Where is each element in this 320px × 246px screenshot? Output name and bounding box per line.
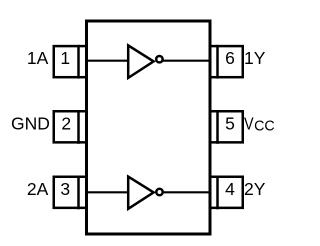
svg-text:2: 2	[61, 113, 71, 133]
pin 5 box	[210, 110, 243, 144]
pin 1 box	[54, 45, 87, 79]
svg-text:CC: CC	[254, 119, 275, 135]
svg-text:V: V	[244, 115, 254, 134]
svg-text:GND: GND	[11, 113, 50, 133]
svg-text:4: 4	[225, 179, 235, 199]
wire pin1 to U1 input	[87, 60, 130, 62]
svg-text:1Y: 1Y	[244, 48, 266, 68]
inverter U2	[128, 177, 163, 209]
pin 2 box	[54, 110, 87, 144]
pin 4 box	[210, 176, 243, 210]
svg-text:2A: 2A	[27, 179, 49, 199]
pin 3 box	[54, 176, 87, 210]
pin 6 box	[210, 45, 243, 79]
inverter U1	[128, 45, 162, 78]
IC package body	[87, 21, 211, 234]
wire U2 output to pin4	[163, 191, 210, 193]
svg-text:6: 6	[225, 48, 235, 68]
wire U1 output to pin6	[163, 60, 210, 62]
pin label VCC	[244, 115, 275, 135]
svg-text:1A: 1A	[27, 48, 49, 68]
svg-text:5: 5	[225, 113, 235, 133]
svg-text:3: 3	[60, 179, 70, 199]
svg-text:1: 1	[60, 48, 70, 68]
wire pin3 to U2 input	[87, 191, 130, 193]
svg-text:2Y: 2Y	[244, 179, 266, 199]
